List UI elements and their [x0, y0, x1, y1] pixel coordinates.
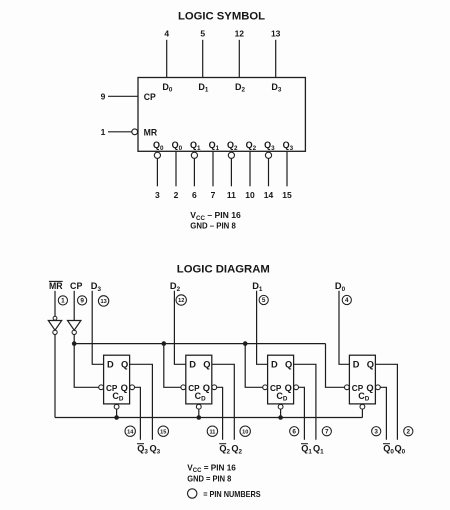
svg-text:D: D [353, 359, 360, 369]
pin 6 circled number [290, 427, 299, 436]
pin 9 circled number (CP) [78, 296, 87, 305]
wire: pin 7 output lead [212, 151, 214, 186]
svg-text:1: 1 [101, 127, 106, 137]
pin 12 circled number (D2) [176, 295, 186, 305]
pin 15 circled number [158, 426, 168, 436]
pin 11 circled number [207, 426, 217, 436]
inversion bubble on pin 3 [154, 152, 160, 158]
flip-flop FF4 (bit 0) body [349, 355, 375, 404]
FF3 complement output bubble [294, 385, 299, 390]
FF3 clock bubble [263, 385, 268, 390]
FF4 complement output bubble [376, 385, 381, 390]
wire: D3 input lead [275, 40, 277, 78]
wire: FF2 Q-bar output to pin 11 [217, 387, 223, 440]
IC body U1 (logic symbol box) [138, 78, 305, 152]
svg-text:9: 9 [80, 298, 84, 305]
svg-text:5: 5 [262, 297, 266, 304]
svg-text:9: 9 [101, 91, 106, 101]
FF4 clock bubble [345, 385, 350, 390]
junction on CP bus at FF3 tap [243, 341, 248, 346]
wire: CP input lead [108, 95, 138, 97]
wire: D1 down and into FF3 D input [257, 291, 268, 365]
wire: FF2 Q output to pin 10 [212, 364, 235, 440]
svg-text:12: 12 [178, 298, 184, 304]
svg-text:GND – PIN 8: GND – PIN 8 [190, 221, 236, 231]
svg-text:Q: Q [203, 383, 210, 393]
svg-text:14: 14 [264, 190, 274, 200]
wire: D0 down and into FF4 D input [339, 291, 349, 365]
inverter U2 (MR buffer) triangle [48, 321, 61, 331]
junction on CP bus at FF1 tap [72, 341, 77, 346]
svg-text:15: 15 [160, 429, 166, 435]
svg-text:D: D [271, 359, 278, 369]
svg-text:6: 6 [192, 190, 197, 200]
wire: CP tap down to FF2 clock [164, 344, 181, 388]
FF1 CD bubble [114, 404, 119, 409]
svg-text:4: 4 [345, 297, 349, 304]
output bubble of CP inverter [72, 330, 76, 334]
svg-text:5: 5 [200, 29, 205, 39]
inversion bubble on MR input [132, 129, 138, 135]
wire: D2 down and into FF2 D input [174, 291, 185, 365]
wire: D3 down and into FF1 D input [92, 291, 103, 365]
svg-text:3: 3 [374, 428, 378, 435]
svg-text:4: 4 [164, 29, 169, 39]
output bubble of MR inverter [53, 330, 57, 334]
wire: CP bus horizontal [74, 343, 325, 345]
input bubble of MR inverter [53, 316, 57, 320]
svg-text:2: 2 [174, 190, 179, 200]
wire: FF3 Q-bar output to pin 6 [299, 387, 305, 440]
junction on MR bus at FF2 CD stub [197, 415, 202, 420]
svg-text:CP: CP [144, 92, 156, 102]
wire: MR stub up to FF1 CD [116, 409, 118, 417]
svg-text:Q: Q [285, 359, 292, 369]
wire: FF4 Q-bar output to pin 3 [380, 387, 386, 440]
svg-text:CP: CP [70, 281, 82, 291]
svg-text:13: 13 [271, 29, 281, 39]
wire: MR stub up to FF2 CD [198, 409, 200, 417]
wire: FF3 Q output to pin 7 [294, 364, 316, 440]
wire: internal MR net vertical down [54, 335, 56, 418]
wire: MR stub up to FF4 CD [361, 409, 363, 417]
label Q3 complement (with overbar) [137, 444, 148, 456]
wire: FF1 Q-bar output to pin 14 [135, 387, 141, 440]
wire: pin 14 output lead [268, 159, 270, 187]
wire: CP from label to inverter [73, 291, 75, 320]
pin 1 circled number (MR) [58, 296, 67, 305]
svg-text:Q: Q [285, 383, 292, 393]
svg-text:13: 13 [100, 299, 106, 305]
svg-text:Q: Q [203, 359, 210, 369]
junction on CP bus at FF2 tap [162, 341, 167, 346]
FF1 complement output bubble [130, 385, 135, 390]
wire: CP tap down to FF3 clock [245, 344, 263, 388]
pin 7 circled number [322, 427, 331, 436]
svg-text:7: 7 [211, 190, 216, 200]
svg-text:MR: MR [49, 281, 63, 291]
wire: MR stub up to FF3 CD [280, 409, 282, 417]
pin 3 circled number [372, 427, 381, 436]
svg-text:LOGIC SYMBOL: LOGIC SYMBOL [178, 11, 265, 23]
svg-text:7: 7 [325, 428, 329, 435]
pin 13 circled number (D3) [98, 296, 108, 306]
wire: pin 2 output lead [175, 151, 177, 186]
svg-text:= PIN NUMBERS: = PIN NUMBERS [203, 489, 261, 499]
junction on MR bus at FF3 CD stub [278, 415, 283, 420]
svg-text:D: D [189, 359, 196, 369]
pin 2 circled number [404, 427, 413, 436]
inversion bubble on pin 6 [191, 152, 197, 158]
wire: CP tap down to FF4 clock [326, 344, 345, 388]
wire: FF4 Q output to pin 2 [375, 364, 397, 440]
wire: pin 6 output lead [193, 159, 195, 187]
svg-text:10: 10 [245, 190, 255, 200]
wire: CP tap down to FF1 clock [74, 344, 99, 388]
svg-text:15: 15 [282, 190, 292, 200]
wire: pin 10 output lead [249, 151, 251, 186]
svg-text:Q: Q [367, 359, 374, 369]
wire: FF1 Q output to pin 15 [130, 364, 153, 440]
wire: D0 input lead [166, 40, 168, 78]
inversion bubble on pin 11 [228, 152, 234, 158]
wire: pin 3 output lead [156, 159, 158, 187]
svg-text:3: 3 [155, 190, 160, 200]
flip-flop FF3 (bit 1) body [268, 355, 294, 404]
pin 10 circled number [240, 426, 250, 436]
svg-text:Q: Q [366, 383, 373, 393]
pin 5 circled number (D1) [259, 295, 268, 304]
svg-text:GND = PIN 8: GND = PIN 8 [187, 474, 231, 483]
svg-text:2: 2 [407, 428, 411, 435]
FF1 clock bubble [99, 385, 104, 390]
pin 4 circled number (D0) [342, 295, 351, 304]
label Q0 complement (with overbar) [383, 444, 394, 456]
FF2 complement output bubble [212, 385, 217, 390]
svg-text:MR: MR [144, 127, 158, 137]
wire: MR from label to inverter [54, 291, 56, 317]
inversion bubble on pin 14 [265, 152, 271, 158]
svg-text:10: 10 [242, 429, 248, 435]
flip-flop FF2 (bit 2) body [186, 355, 212, 404]
svg-text:D: D [107, 359, 114, 369]
svg-text:Q: Q [121, 383, 128, 393]
wire: D2 input lead [238, 40, 240, 78]
svg-text:LOGIC DIAGRAM: LOGIC DIAGRAM [177, 263, 270, 275]
label Q2 complement (with overbar) [219, 444, 230, 456]
svg-text:1: 1 [61, 298, 65, 305]
FF3 CD bubble [278, 404, 283, 409]
wire: MR bus horizontal [55, 417, 362, 419]
svg-text:11: 11 [209, 429, 215, 435]
flip-flop FF1 (bit 3) body [104, 355, 130, 404]
legend circle (pin numbers) [188, 489, 197, 498]
pin 14 circled number [125, 426, 135, 436]
svg-text:Q: Q [121, 359, 128, 369]
wire: pin 11 output lead [230, 159, 232, 187]
wire: pin 15 output lead [286, 151, 288, 186]
inverter U3 (CP buffer) triangle [68, 321, 81, 331]
svg-text:12: 12 [235, 29, 245, 39]
junction on MR bus at FF1 CD stub [114, 415, 119, 420]
wire: internal CP net to bus [73, 335, 75, 344]
svg-text:6: 6 [292, 428, 296, 435]
wire: D1 input lead [202, 40, 204, 78]
label MR (active low, with overbar) [49, 281, 63, 291]
wire: MR input lead [108, 131, 132, 133]
label Q1 complement (with overbar) [301, 444, 312, 456]
FF4 CD bubble [360, 404, 365, 409]
FF2 clock bubble [181, 385, 186, 390]
svg-text:14: 14 [127, 429, 134, 435]
svg-text:11: 11 [227, 190, 236, 200]
FF2 CD bubble [196, 404, 201, 409]
